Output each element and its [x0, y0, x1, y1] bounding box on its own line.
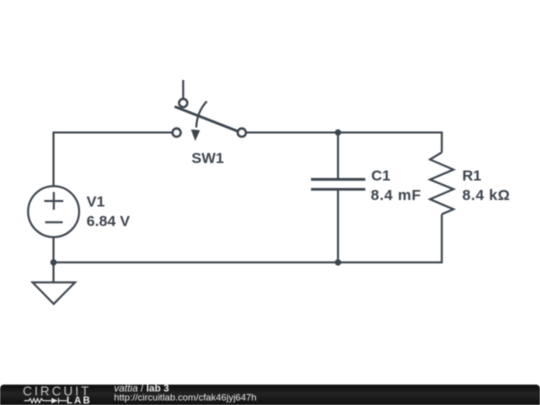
svg-text:R1: R1 — [462, 168, 481, 185]
switch SW1 — [172, 80, 246, 141]
wire capacitor bottom stub — [337, 191, 339, 263]
junction node at V1 bottom — [50, 259, 56, 265]
resistor R1 — [430, 152, 454, 214]
junction node at capacitor bottom — [335, 259, 341, 265]
ground — [33, 282, 75, 304]
wire capacitor top stub — [337, 133, 339, 179]
capacitor C1 — [311, 179, 365, 189]
wire top-left from V1 to switch left terminal — [54, 133, 177, 187]
wire ground stem — [53, 262, 55, 282]
junction node at capacitor top — [335, 129, 341, 135]
voltage source V1 — [28, 186, 79, 237]
svg-text:8.4 kΩ: 8.4 kΩ — [462, 187, 510, 204]
wire resistor bottom along bottom rail to V1 node — [54, 214, 442, 262]
wire switch right terminal to resistor top — [242, 133, 442, 153]
svg-text:6.84 V: 6.84 V — [87, 213, 130, 230]
svg-text:V1: V1 — [87, 193, 105, 210]
CircuitLab logo squiggle resistor and diode — [24, 398, 67, 403]
svg-text:LAB: LAB — [67, 396, 92, 405]
svg-text:C1: C1 — [371, 168, 390, 185]
svg-text:http://circuitlab.com/cfak46jy: http://circuitlab.com/cfak46jyj647h — [114, 393, 257, 404]
svg-text:SW1: SW1 — [192, 150, 225, 167]
svg-text:8.4 mF: 8.4 mF — [371, 187, 422, 204]
wire V1 bottom to ground node — [53, 237, 55, 262]
